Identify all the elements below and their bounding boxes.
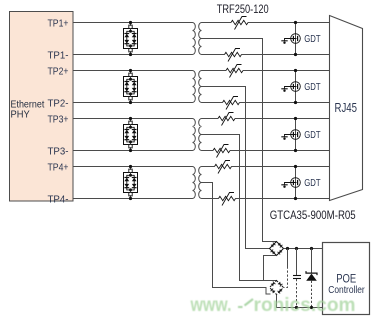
wire TP3+ PHY to transformer primary — [73, 118, 193, 120]
wire TP1+ PHY to transformer primary — [73, 22, 193, 24]
svg-text:www.: www. — [190, 295, 232, 316]
wire TP4- fuse to RJ45 — [236, 198, 330, 200]
GDT gas discharge tube G4 — [281, 165, 300, 200]
wire TP1+ transformer secondary to fuse — [202, 22, 232, 24]
wire TP2+ fuse to RJ45 — [243, 70, 330, 72]
wire TP1- fuse to RJ45 — [242, 54, 330, 56]
svg-text:TP2-: TP2- — [48, 98, 69, 109]
wire TP2- fuse to RJ45 — [240, 102, 330, 104]
capacitor C1 — [293, 249, 301, 308]
junction node V- b — [310, 306, 313, 309]
transformer T3 secondary winding — [199, 119, 202, 151]
PTC fuse F4 TRF250-120 — [223, 97, 240, 110]
svg-text:TP3+: TP3+ — [48, 114, 69, 125]
junction node V+ b — [295, 247, 298, 250]
wire TP3+ fuse to RJ45 — [235, 118, 330, 120]
svg-text:GDT: GDT — [304, 178, 320, 189]
wire TP2- transformer secondary to fuse — [202, 102, 223, 104]
POE controller U2 — [323, 243, 370, 315]
svg-text:TP4-: TP4- — [48, 194, 69, 205]
transformer T2 secondary winding — [199, 71, 202, 103]
PTC fuse F1 TRF250-120 — [231, 17, 248, 30]
zener diode Z1 — [306, 249, 317, 308]
svg-text:RJ45: RJ45 — [335, 101, 358, 115]
svg-text:TP1-: TP1- — [48, 50, 69, 61]
transformer T1 primary winding — [193, 23, 196, 55]
bridge rectifier BR2 (dashed) — [270, 281, 284, 295]
TVS diode array D3 — [124, 117, 138, 152]
transformer T4 primary winding — [193, 167, 196, 199]
svg-text:TP2+: TP2+ — [48, 66, 69, 77]
wire TP4+ PHY to transformer primary — [73, 166, 193, 168]
wire TP3+ transformer secondary to fuse — [202, 118, 219, 120]
wire TP3- PHY to transformer primary — [73, 150, 193, 152]
junction node V- a — [295, 306, 298, 309]
TVS diode array D4 — [124, 165, 138, 200]
wire TP1+ fuse to RJ45 — [248, 22, 330, 24]
PTC fuse F3 TRF250-120 — [226, 65, 243, 78]
Ethernet PHY block U-PHY — [10, 12, 74, 202]
wire TP4+ fuse to RJ45 — [232, 166, 330, 168]
TVS diode array D2 — [124, 69, 138, 104]
wire BR2 bottom to negative rail — [277, 295, 324, 308]
bridge rectifier BR1 — [270, 242, 284, 256]
svg-text:PHY: PHY — [11, 109, 30, 120]
wire T2 center tap to bridge BR1 left — [202, 87, 270, 249]
GDT gas discharge tube G1 — [281, 21, 300, 56]
transformer T3 primary winding — [193, 119, 196, 151]
svg-text:TP3-: TP3- — [48, 146, 69, 157]
wire TP2- PHY to transformer primary — [73, 102, 193, 104]
wire TP1- PHY to transformer primary — [73, 54, 193, 56]
wire BR1 minus to bottom rail — [264, 256, 277, 281]
PTC fuse F7 TRF250-120 — [215, 161, 232, 174]
PTC fuse F8 TRF250-120 — [219, 193, 236, 206]
PTC fuse F5 TRF250-120 — [218, 113, 235, 126]
PTC fuse F2 TRF250-120 — [225, 49, 242, 62]
svg-text:TRF250-120: TRF250-120 — [217, 4, 269, 16]
transformer T4 secondary winding — [199, 167, 202, 199]
wire TP1- transformer secondary to fuse — [202, 54, 225, 56]
wire top positive rail BR1 to POE — [284, 248, 324, 250]
junction node V+ c — [310, 247, 313, 250]
svg-text:TP4+: TP4+ — [48, 162, 69, 173]
wire T3 center tap to bridge BR2 top — [202, 135, 277, 281]
GDT gas discharge tube G2 — [281, 69, 300, 104]
wire BR2 plus dashed tie to V+ — [287, 249, 289, 267]
wire T4 center tap to bridge BR2 left — [202, 183, 271, 295]
transformer T1 secondary winding — [199, 23, 202, 55]
TVS diode array D1 — [124, 21, 138, 56]
svg-text:GDT: GDT — [304, 130, 320, 141]
wire TP2+ PHY to transformer primary — [73, 70, 193, 72]
wire TP4+ transformer secondary to fuse — [202, 166, 215, 168]
wire TP3- transformer secondary to fuse — [202, 150, 214, 152]
wire TP4- PHY to transformer primary — [73, 198, 193, 200]
transformer T2 primary winding — [193, 71, 196, 103]
RJ45 connector J1 — [330, 16, 363, 201]
svg-text:GDT: GDT — [304, 82, 320, 93]
svg-text:ronics.com: ronics.com — [254, 295, 356, 316]
wire TP2+ transformer secondary to fuse — [202, 70, 227, 72]
GDT gas discharge tube G3 — [281, 117, 300, 152]
svg-text:GDT: GDT — [304, 34, 320, 45]
junction node V+ a — [286, 247, 289, 250]
wire TP3- fuse to RJ45 — [230, 150, 330, 152]
svg-text:GTCA35-900M-R05: GTCA35-900M-R05 — [270, 210, 356, 222]
wire T1 center tap to bridge BR1 top — [202, 39, 277, 242]
wire TP4- transformer secondary to fuse — [202, 198, 219, 200]
svg-text:TP1+: TP1+ — [48, 18, 69, 29]
PTC fuse F6 TRF250-120 — [213, 145, 230, 158]
